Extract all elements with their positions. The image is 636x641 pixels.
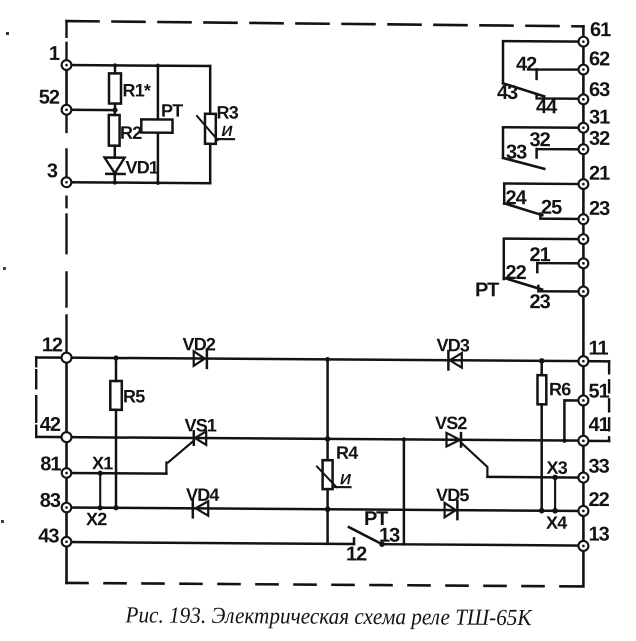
svg-text:33: 33	[506, 141, 527, 163]
svg-text:43: 43	[497, 82, 518, 104]
varistor R4 branch	[326, 359, 329, 543]
node junction PT bottom	[156, 181, 160, 185]
svg-text:X4: X4	[546, 513, 567, 533]
speck 2	[3, 267, 6, 270]
wire gate to 33	[487, 476, 583, 479]
terminal 62	[579, 48, 611, 74]
wire rail 43-13 right	[382, 544, 583, 545]
svg-text:51: 51	[589, 380, 610, 402]
svg-text:22: 22	[506, 262, 527, 284]
diode VD1	[105, 157, 159, 183]
terminal 12	[42, 334, 72, 362]
resistor R1*	[109, 65, 151, 110]
svg-text:12: 12	[42, 334, 63, 356]
wire PT coil branch	[157, 66, 160, 183]
node junction R1 bottom on 52	[112, 107, 117, 112]
wire rail 83-22	[67, 507, 584, 511]
svg-text:24: 24	[506, 187, 528, 209]
svg-text:25: 25	[541, 197, 562, 219]
wire right column 13 to bottom corner	[582, 546, 585, 587]
terminal 3	[47, 160, 72, 187]
contact blade 33 (open)	[503, 158, 544, 169]
terminal 32	[579, 128, 611, 155]
wire 81 stub	[67, 472, 167, 475]
terminal 22	[578, 489, 609, 516]
terminal 51	[578, 380, 609, 405]
svg-text:PT: PT	[161, 101, 183, 121]
svg-text:R2: R2	[120, 123, 142, 143]
svg-text:VS1: VS1	[185, 415, 217, 435]
svg-text:R4: R4	[336, 443, 358, 463]
resistor R5	[110, 358, 145, 508]
wire external jumper left 12-42	[36, 357, 66, 437]
node junction mid branch top	[402, 437, 406, 441]
terminal 41	[578, 414, 609, 446]
svg-text:22: 22	[589, 489, 610, 511]
wire top dashed border	[67, 21, 584, 26]
contact 21 fixed, wire to middle terminal	[537, 263, 583, 272]
svg-text:32: 32	[530, 129, 551, 151]
node junction R5 top	[113, 355, 118, 360]
svg-text:И: И	[222, 123, 234, 140]
svg-text:41: 41	[589, 414, 610, 436]
svg-text:63: 63	[589, 79, 610, 101]
wire left column solid 12-43	[65, 358, 68, 542]
svg-text:33: 33	[589, 456, 610, 478]
contact 25 fixed, wire to 23	[540, 214, 583, 219]
svg-text:23: 23	[530, 291, 551, 313]
terminal 61	[579, 19, 612, 47]
wire node3 bottom rail	[67, 181, 211, 184]
terminal 31	[579, 106, 611, 132]
svg-text:X2: X2	[86, 509, 107, 529]
wire contact arm 31 to pivot 33	[503, 127, 583, 158]
svg-text:Рис. 193. Электрическая схема: Рис. 193. Электрическая схема реле ТШ-65…	[125, 602, 534, 630]
wire contact arm 21 to pivot 24	[504, 184, 583, 205]
wire mid branch x404	[403, 439, 406, 544]
wire rail 43-13 left	[67, 542, 355, 544]
svg-text:R6: R6	[549, 379, 571, 399]
svg-text:R1*: R1*	[123, 80, 151, 100]
node junction R5 bottom	[113, 505, 118, 510]
node junction R6 top	[539, 358, 545, 364]
node junction R6 bottom	[539, 508, 545, 514]
node junction R4 mid	[325, 436, 331, 442]
node junction 51 loop	[562, 438, 566, 442]
contact 44 fixed, wire to 63	[537, 95, 584, 99]
terminal 52	[39, 87, 72, 115]
terminal 21	[579, 163, 611, 190]
node junction R4 top	[325, 357, 330, 362]
wire left border dashed top segment	[65, 21, 67, 60]
terminal 42	[40, 414, 72, 442]
thyristor VS2	[435, 413, 487, 477]
svg-text:X1: X1	[92, 453, 113, 473]
svg-text:81: 81	[40, 453, 61, 475]
svg-text:R5: R5	[123, 386, 145, 406]
diode VD4	[186, 485, 219, 518]
terminal group4 c	[579, 287, 589, 297]
diode VD5	[436, 485, 469, 519]
wire left column 43 to bottom corner	[65, 542, 68, 583]
wire R3 right branch	[209, 66, 212, 183]
jumper X3-X4	[546, 458, 568, 533]
resistor R2	[109, 110, 142, 158]
node junction R4 low	[325, 506, 331, 512]
svg-text:31: 31	[589, 106, 610, 128]
svg-text:52: 52	[39, 87, 60, 109]
svg-text:РТ: РТ	[475, 279, 499, 301]
svg-text:VD4: VD4	[186, 485, 219, 505]
svg-text:13: 13	[589, 523, 610, 545]
svg-text:42: 42	[516, 53, 537, 75]
node junction R1 top	[113, 63, 117, 67]
thyristor VS1	[166, 415, 217, 474]
wire left column solid 1-52	[65, 65, 68, 110]
svg-text:R3: R3	[217, 102, 239, 122]
terminal 23	[579, 198, 611, 225]
contact blade 43-44 (closed)	[503, 83, 544, 96]
node junction VD1 bottom	[113, 181, 117, 185]
contact 12 fixed (wire end tick)	[353, 538, 356, 544]
contact 32 fixed, wire to 32	[537, 149, 584, 158]
svg-text:21: 21	[589, 163, 610, 185]
svg-text:61: 61	[590, 19, 611, 41]
contact 42 fixed, wire to 62	[537, 69, 584, 79]
node blade pivot on rail 43-13	[379, 541, 385, 547]
svg-text:11: 11	[589, 337, 609, 359]
wire rail 12-11	[67, 358, 584, 362]
svg-text:62: 62	[589, 48, 610, 70]
wire left border dashed 52-3	[65, 110, 67, 178]
diode VD2	[183, 334, 216, 368]
speck 3	[1, 520, 4, 523]
speck 1	[6, 32, 9, 35]
terminal 1	[49, 43, 72, 70]
wire contact arm to pivot 22 (relay PT group)	[504, 239, 584, 280]
svg-text:21: 21	[530, 244, 551, 266]
svg-text:12: 12	[346, 543, 367, 565]
svg-text:83: 83	[40, 490, 61, 512]
terminal 81	[40, 453, 71, 478]
svg-text:VD5: VD5	[436, 485, 469, 505]
wire 52 stub	[67, 109, 116, 112]
contact 23 fixed, wire to bottom terminal	[538, 286, 583, 292]
terminal group4 a	[579, 234, 589, 244]
wire left border dashed mid segment	[65, 197, 67, 353]
terminal 63	[579, 79, 611, 105]
svg-text:44: 44	[536, 96, 558, 118]
wire bottom dashed border	[67, 583, 584, 587]
diode VD3	[437, 335, 470, 370]
varistor R4	[317, 443, 358, 490]
wire rail 42-41	[67, 437, 584, 441]
svg-text:X3: X3	[547, 458, 568, 478]
svg-text:VD3: VD3	[437, 335, 470, 355]
contact blade 24-25 (closed)	[504, 203, 542, 215]
svg-text:1: 1	[49, 43, 60, 65]
terminal 33	[578, 456, 609, 483]
wire right column solid	[582, 26, 585, 546]
svg-text:42: 42	[40, 414, 61, 436]
svg-text:И: И	[340, 471, 352, 488]
wire contact arm 61 to pivot 43	[503, 41, 583, 84]
resistor R6	[538, 361, 572, 511]
svg-text:VD1: VD1	[126, 157, 159, 177]
svg-text:VS2: VS2	[435, 413, 467, 433]
wire 51 loop	[564, 400, 583, 440]
terminal 83	[40, 490, 72, 513]
svg-text:23: 23	[589, 198, 610, 220]
svg-text:VD2: VD2	[183, 334, 216, 354]
relay coil PT	[141, 100, 183, 132]
terminal 43	[38, 525, 71, 547]
wire external jumper right 11-41	[583, 361, 609, 441]
svg-text:32: 32	[589, 128, 610, 150]
svg-text:3: 3	[47, 160, 58, 182]
node junction PT top	[156, 64, 160, 68]
terminal 11	[578, 337, 608, 366]
contact blade 22-23 (closed)	[504, 278, 542, 290]
svg-text:13: 13	[379, 525, 400, 547]
thermistor R3	[197, 102, 239, 144]
svg-text:43: 43	[38, 525, 59, 547]
wire node1 top rail	[67, 64, 211, 67]
contact blade PT 13-12 (open)	[349, 527, 382, 544]
jumper X1-X2	[86, 453, 113, 529]
terminal 13	[578, 523, 609, 551]
terminal group4 b	[579, 258, 589, 268]
